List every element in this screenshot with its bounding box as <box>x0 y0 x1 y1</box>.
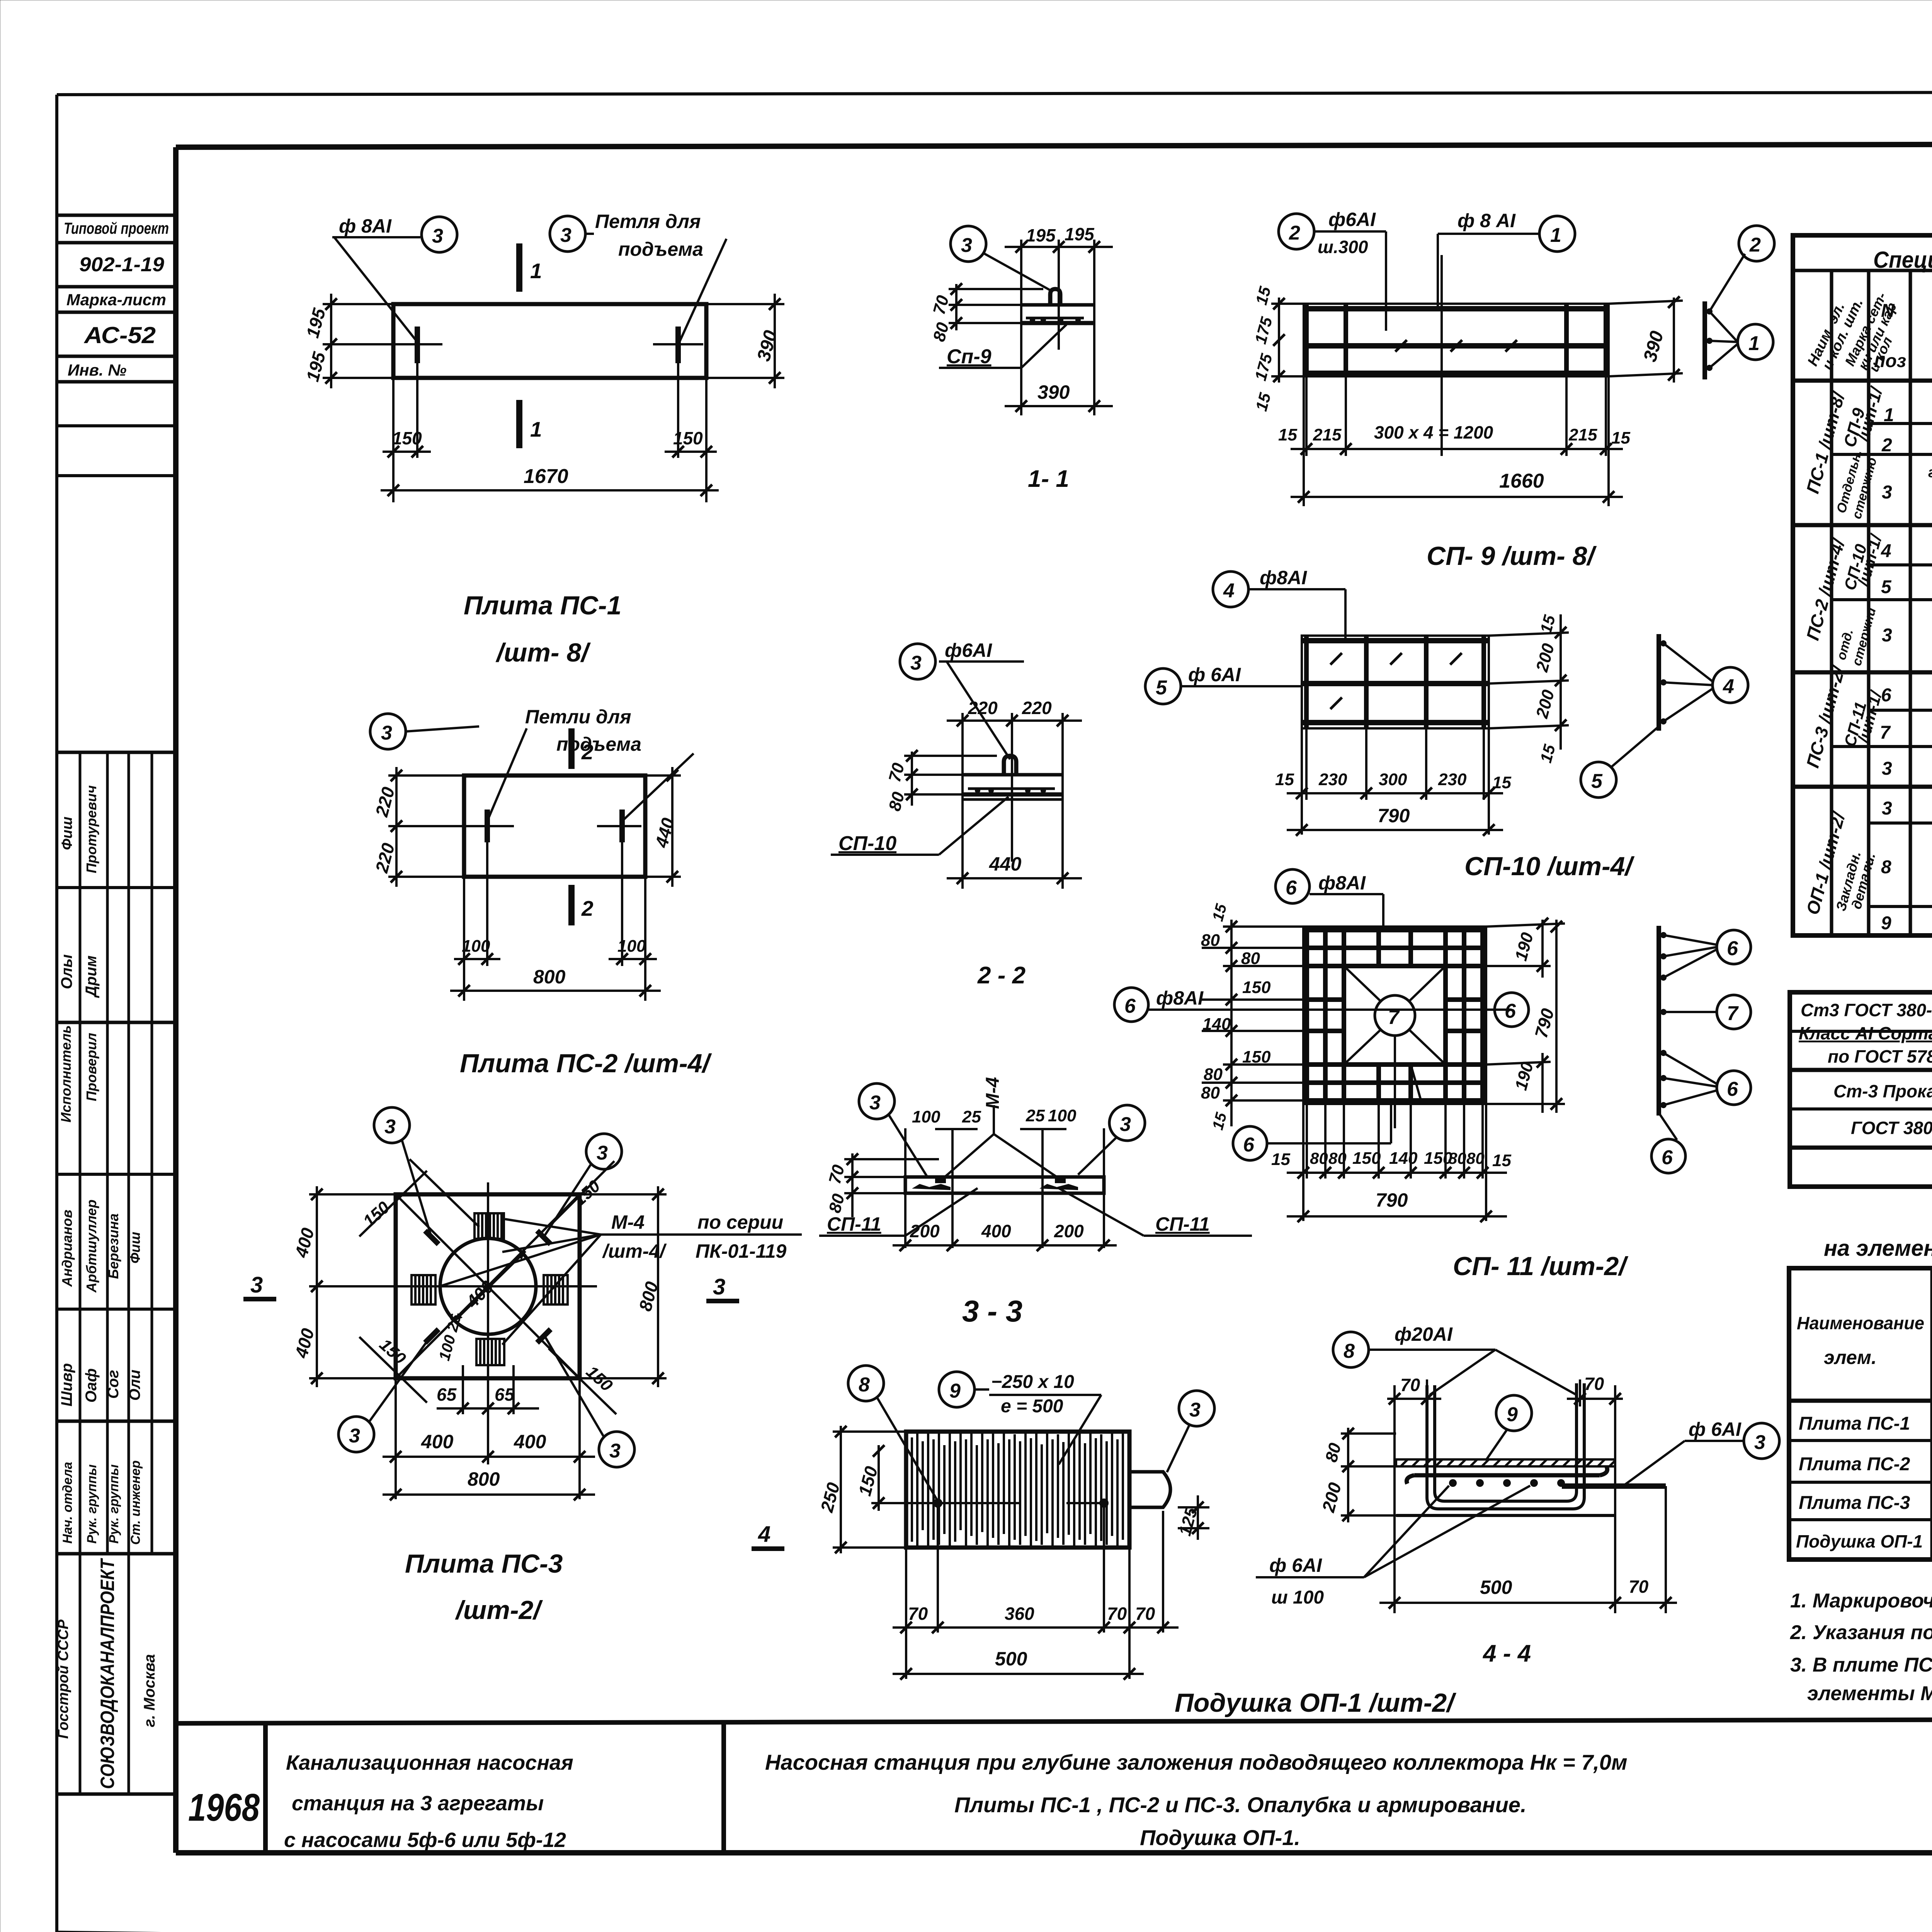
svg-text:3: 3 <box>869 1092 881 1114</box>
4-4 leader circle 9 <box>1486 1395 1532 1461</box>
section 4-4 drawing <box>1396 1383 1666 1515</box>
svg-text:15: 15 <box>1252 391 1274 413</box>
ПС-3 section marks 3-3 <box>243 1272 739 1301</box>
svg-text:25: 25 <box>1026 1106 1045 1125</box>
specification table row 8 with П sketch <box>1881 832 1932 889</box>
svg-text:150: 150 <box>1242 978 1271 997</box>
3-3 dims 70/80 left <box>825 1153 939 1217</box>
svg-text:ф 6АІ: ф 6АІ <box>1269 1554 1322 1576</box>
svg-text:150: 150 <box>1352 1149 1381 1168</box>
svg-text:80: 80 <box>1204 1065 1223 1084</box>
svg-text:6: 6 <box>1286 877 1297 899</box>
svg-text:80: 80 <box>825 1192 849 1215</box>
svg-text:Подушка ОП-1: Подушка ОП-1 <box>1796 1531 1923 1551</box>
ПС-3 М-4 annotation <box>439 1211 802 1345</box>
svg-text:Плита ПС-1: Плита ПС-1 <box>464 591 621 620</box>
СП-11 title <box>1453 1252 1628 1281</box>
svg-text:9: 9 <box>949 1380 961 1402</box>
svg-text:70: 70 <box>1107 1604 1127 1624</box>
svg-text:на элементы, показанные на: на элементы, показанные на данном листе <box>1824 1236 1932 1261</box>
СП-11 bottom dims <box>1271 1104 1511 1222</box>
svg-text:по ГОСТ 5781-61: по ГОСТ 5781-61 <box>1828 1046 1932 1066</box>
svg-text:Канализационная насосная: Канализационная насосная <box>286 1751 573 1774</box>
svg-text:8: 8 <box>1344 1340 1355 1362</box>
svg-text:1: 1 <box>530 417 542 441</box>
svg-text:9: 9 <box>1507 1403 1518 1426</box>
svg-text:ПК-01-119: ПК-01-119 <box>696 1240 787 1262</box>
svg-text:70: 70 <box>825 1163 849 1186</box>
svg-text:Плиты ПС-1 , ПС-2: Плиты ПС-1 , ПС-2 и ПС-3. Опалубка и арм… <box>954 1793 1527 1817</box>
svg-text:3: 3 <box>1189 1399 1201 1421</box>
specification table grid <box>1793 235 1932 935</box>
ПС-1 dimension 195/195 left <box>302 294 393 388</box>
svg-text:5: 5 <box>1881 577 1892 597</box>
svg-text:2: 2 <box>1289 222 1300 244</box>
specification table headers <box>1804 242 1932 381</box>
svg-text:−250 х 10: −250 х 10 <box>991 1372 1074 1392</box>
Плита ПС-3 plan <box>381 1182 597 1391</box>
svg-text:ф8АІ: ф8АІ <box>1318 872 1366 894</box>
svg-text:3: 3 <box>1754 1431 1765 1454</box>
ПС-3 leader circles 3 <box>338 1107 634 1467</box>
СП-11 left dims 15/80/80/150/140/150/80/80/15 <box>1201 902 1303 1132</box>
svg-text:/шт-4/: /шт-4/ <box>602 1240 667 1262</box>
svg-text:1660: 1660 <box>1499 470 1544 492</box>
svg-text:/шт- 8/: /шт- 8/ <box>495 638 591 667</box>
ПС-2 dims 100/100 bottom <box>454 842 657 1001</box>
svg-text:ф 6АІ: ф 6АІ <box>1689 1418 1742 1440</box>
svg-text:7: 7 <box>1727 1002 1739 1025</box>
1-1 dims 70/80 left <box>930 283 1043 344</box>
svg-text:790: 790 <box>1376 1189 1408 1211</box>
Подушка ОП-1 label <box>1175 1688 1456 1718</box>
Подушка leader circles 8 9 3 <box>848 1366 1214 1501</box>
svg-text:Дрим: Дрим <box>83 956 100 998</box>
svg-text:3: 3 <box>910 652 922 674</box>
svg-text:СП-11: СП-11 <box>1155 1213 1210 1235</box>
svg-text:1670: 1670 <box>524 465 568 488</box>
svg-text:1: 1 <box>1550 224 1561 247</box>
Подушка dims 70/360/70/70 bottom <box>893 1507 1179 1679</box>
svg-text:СП- 11 /шт-2/: СП- 11 /шт-2/ <box>1453 1252 1628 1281</box>
ПС-3 diameter 400 arrow <box>454 1251 526 1321</box>
svg-text:Ст. инженер: Ст. инженер <box>128 1460 143 1545</box>
ПС-3 dims 400/400 left <box>291 1186 396 1387</box>
svg-text:200: 200 <box>1054 1221 1084 1241</box>
2-2 leader circle 3 ф6АІ <box>900 639 1024 759</box>
svg-text:15: 15 <box>1536 742 1559 765</box>
svg-text:150: 150 <box>392 428 422 448</box>
Расход материалов table header texts <box>1797 1269 1932 1388</box>
ПС-2 dims 220/220 left <box>371 767 464 887</box>
svg-text:65: 65 <box>495 1384 515 1405</box>
СП-9 mesh <box>1304 304 1609 376</box>
svg-text:1968: 1968 <box>188 1786 260 1829</box>
svg-text:2: 2 <box>581 896 594 920</box>
svg-text:Подушка ОП-1.: Подушка ОП-1. <box>1140 1825 1300 1850</box>
svg-text:3: 3 <box>961 234 972 257</box>
svg-text:15: 15 <box>1209 902 1230 923</box>
svg-text:М-4: М-4 <box>983 1077 1003 1109</box>
svg-text:Подушка ОП-1 /шт-2/: Подушка ОП-1 /шт-2/ <box>1175 1688 1456 1718</box>
svg-text:2. Указания по эл. сварке: 2. Указания по эл. сварке арматурных сет… <box>1790 1621 1932 1644</box>
svg-text:Плита ПС-2: Плита ПС-2 <box>1799 1454 1910 1475</box>
svg-text:Плита ПС-1: Плита ПС-1 <box>1799 1413 1910 1434</box>
svg-text:5: 5 <box>1591 770 1603 793</box>
svg-text:70: 70 <box>1135 1604 1155 1624</box>
svg-text:элементы М-4 по серии: элементы М-4 по серии ПК-01-19; по 4 в к… <box>1807 1682 1932 1705</box>
svg-text:3: 3 <box>349 1425 360 1447</box>
svg-text:15: 15 <box>1278 425 1297 444</box>
svg-text:390: 390 <box>1037 381 1070 403</box>
svg-text:390: 390 <box>1640 329 1668 364</box>
svg-text:150: 150 <box>570 1177 604 1210</box>
2-2 dim 440 bottom <box>947 853 1082 884</box>
svg-text:3: 3 <box>597 1142 608 1164</box>
СП-11 mesh <box>1303 927 1486 1104</box>
svg-text:3: 3 <box>1882 482 1892 503</box>
title block texts <box>188 1731 1932 1895</box>
svg-text:4: 4 <box>1223 580 1235 602</box>
svg-text:Фиш: Фиш <box>127 1232 143 1264</box>
СП-9 leader circle 1 ф8АІ <box>1438 210 1575 307</box>
svg-text:ПС-3 /шт-2/: ПС-3 /шт-2/ <box>1802 663 1849 770</box>
2-2 label СП-10 leader <box>831 797 1009 855</box>
svg-text:400: 400 <box>291 1226 318 1260</box>
svg-text:360: 360 <box>1005 1604 1034 1624</box>
Примечания <box>1790 1561 1932 1705</box>
Выборка арматуры table grid <box>1790 992 1932 1187</box>
svg-text:N: N <box>1881 301 1895 321</box>
svg-text:2: 2 <box>1881 435 1892 456</box>
2-2 dims 70/80 left <box>885 750 997 813</box>
СП-11 side section bar with circles 6/7/6/6 <box>1651 926 1751 1173</box>
svg-text:25: 25 <box>962 1107 981 1126</box>
svg-text:Шивр: Шивр <box>58 1363 75 1406</box>
svg-text:8: 8 <box>859 1374 870 1396</box>
svg-text:150: 150 <box>854 1464 881 1498</box>
svg-text:ф6АІ: ф6АІ <box>945 639 992 661</box>
svg-text:3: 3 <box>381 722 392 744</box>
svg-text:4: 4 <box>1723 675 1734 698</box>
Плита ПС-3 label <box>405 1549 563 1625</box>
svg-text:5: 5 <box>1156 677 1167 699</box>
specification table group cells <box>1802 384 1886 917</box>
ПС-3 dims 400/400 bottom <box>383 1378 595 1499</box>
svg-text:175: 175 <box>1251 352 1276 383</box>
svg-text:70: 70 <box>885 761 908 784</box>
svg-text:300 х 4 = 1200: 300 х 4 = 1200 <box>1374 422 1493 442</box>
svg-text:4 - 4: 4 - 4 <box>1482 1640 1531 1667</box>
ПС-1 overall dimension 1670 <box>381 465 719 496</box>
ПС-2 dim 440 right <box>645 767 681 887</box>
svg-text:элем.: элем. <box>1824 1347 1877 1368</box>
svg-text:6: 6 <box>1243 1134 1255 1156</box>
svg-text:400: 400 <box>291 1326 318 1361</box>
svg-text:6: 6 <box>1727 937 1738 960</box>
1-1 title <box>1028 466 1069 492</box>
section mark 1 above/below ПС-1 <box>519 243 542 448</box>
svg-text:790: 790 <box>1531 1006 1558 1040</box>
svg-text:1. Маркировочные планы пл: 1. Маркировочные планы плит см. листы АС… <box>1790 1590 1932 1612</box>
СП-10 leader circle 5 ф6АІ <box>1145 664 1302 704</box>
svg-text:СП-10: СП-10 <box>838 832 896 855</box>
svg-text:3. В плите ПС-3 дол: 3. В плите ПС-3 должны быть установлены … <box>1790 1654 1932 1676</box>
svg-text:Фиш: Фиш <box>59 816 75 850</box>
svg-text:ф20АІ: ф20АІ <box>1395 1323 1453 1345</box>
svg-text:15: 15 <box>1492 773 1511 792</box>
svg-text:80: 80 <box>1241 949 1260 968</box>
Подушка dim 125 right <box>1175 1495 1209 1540</box>
section mark 2 above/below ПС-2 <box>571 728 594 925</box>
svg-text:Ст-3 Прокат: Ст-3 Прокат <box>1833 1081 1932 1101</box>
svg-text:200: 200 <box>1532 688 1558 721</box>
svg-text:ф6АІ: ф6АІ <box>1328 209 1376 230</box>
svg-text:190: 190 <box>1512 930 1537 963</box>
4-4 leader circle 3 ф6АІ <box>1623 1418 1779 1486</box>
svg-text:195: 195 <box>1026 225 1056 245</box>
svg-text:3: 3 <box>560 224 571 247</box>
svg-text:поз: поз <box>1874 351 1906 371</box>
svg-text:15: 15 <box>1611 429 1630 447</box>
Подушка overall dim 500 <box>893 1648 1144 1680</box>
svg-text:ГОСТ 380 - 60: ГОСТ 380 - 60 <box>1851 1118 1932 1138</box>
svg-text:500: 500 <box>995 1648 1027 1670</box>
svg-text:220: 220 <box>371 785 398 819</box>
svg-text:9: 9 <box>1881 913 1891 934</box>
svg-text:220: 220 <box>1022 698 1052 718</box>
svg-text:с насосами 5ф-6 или 5ф-12: с насосами 5ф-6 или 5ф-12 <box>284 1828 566 1852</box>
svg-text:3: 3 <box>1120 1113 1131 1136</box>
svg-text:250: 250 <box>816 1480 844 1515</box>
1-1 label Сп-9 <box>939 325 1066 368</box>
ПС-3 dim 800 right <box>580 1186 667 1387</box>
svg-text:6: 6 <box>1505 1000 1516 1022</box>
svg-text:3: 3 <box>250 1272 263 1298</box>
svg-text:Госстрой СССР: Госстрой СССР <box>55 1619 71 1739</box>
svg-text:СП- 9 /шт- 8/: СП- 9 /шт- 8/ <box>1427 541 1597 571</box>
svg-text:70: 70 <box>1400 1375 1420 1395</box>
svg-text:Насосная станция при: Насосная станция при глубине заложения п… <box>765 1750 1628 1774</box>
СП-9 overall dim 1660 <box>1291 470 1623 503</box>
4-4 ф6АІ ш100 label left <box>1256 1486 1530 1608</box>
svg-text:/шт-2/: /шт-2/ <box>455 1595 543 1625</box>
svg-text:400: 400 <box>981 1221 1011 1241</box>
svg-text:ф 8 АІ: ф 8 АІ <box>1458 210 1516 231</box>
specification table row 3 hook sketch <box>1882 464 1932 524</box>
СП-11 leader circles 6 <box>1114 869 1529 1160</box>
svg-text:7: 7 <box>1880 723 1891 743</box>
svg-text:15: 15 <box>1271 1150 1290 1169</box>
svg-text:станция на 3 агрегаты: станция на 3 агрегаты <box>292 1792 544 1815</box>
3-3 leader circles 3 <box>859 1083 1145 1177</box>
svg-text:100: 100 <box>912 1107 940 1126</box>
svg-text:3: 3 <box>713 1274 725 1299</box>
svg-text:440: 440 <box>989 853 1022 875</box>
СП-10 side section bar with circles 4 and 5 <box>1581 634 1748 798</box>
svg-text:440: 440 <box>651 816 678 850</box>
svg-text:3: 3 <box>432 225 443 247</box>
svg-text:Исполнитель: Исполнитель <box>58 1025 74 1122</box>
svg-text:по серии: по серии <box>697 1211 783 1233</box>
СП-10 leader circle 4 ф8АІ <box>1213 567 1345 638</box>
svg-text:3: 3 <box>1882 625 1892 646</box>
ПС-2 overall dim 800 <box>450 966 661 997</box>
svg-text:М-4: М-4 <box>611 1211 645 1233</box>
svg-text:15: 15 <box>1275 770 1294 789</box>
svg-text:3: 3 <box>609 1440 621 1462</box>
3-3 title <box>962 1294 1022 1328</box>
ПС-3 weld marks <box>425 1231 551 1343</box>
svg-text:80: 80 <box>1201 931 1220 950</box>
svg-text:подъема: подъема <box>556 733 641 755</box>
ПС-1 dimension 150 bottom right <box>665 363 717 502</box>
bottom title block <box>176 1718 1932 1853</box>
svg-text:195: 195 <box>302 306 329 340</box>
СП-9 side section bar with circles 2 and 1 <box>1705 226 1774 379</box>
СП-9 dims 15/175/175/15 left <box>1251 284 1304 413</box>
svg-text:150: 150 <box>1242 1048 1271 1066</box>
svg-text:2: 2 <box>1749 234 1761 256</box>
svg-text:195: 195 <box>1065 224 1095 244</box>
specification table rows 4-5 <box>1881 526 1932 601</box>
svg-text:3: 3 <box>1882 798 1892 819</box>
Подушка section mark 4 <box>752 1522 784 1549</box>
svg-text:1: 1 <box>1748 332 1760 355</box>
svg-text:Оаф: Оаф <box>83 1368 100 1403</box>
4-4 extension lines and dims <box>1318 1374 1677 1613</box>
svg-text:200: 200 <box>1318 1480 1345 1515</box>
svg-text:Класс АІ Сортамент: Класс АІ Сортамент <box>1799 1023 1932 1043</box>
svg-text:400: 400 <box>421 1431 454 1452</box>
svg-text:140: 140 <box>1202 1015 1231 1034</box>
left stamp column lines <box>57 215 176 1794</box>
ПС-1 dimension 150 bottom left <box>383 363 431 502</box>
svg-text:80: 80 <box>1310 1149 1328 1167</box>
svg-text:Плита ПС-3: Плита ПС-3 <box>1799 1493 1910 1513</box>
svg-text:ш 100: ш 100 <box>1271 1587 1324 1608</box>
svg-text:220: 220 <box>371 841 398 875</box>
svg-text:Арбтшуллер: Арбтшуллер <box>83 1199 99 1293</box>
specification table row 3b <box>1882 621 1932 668</box>
svg-text:300: 300 <box>1379 770 1407 789</box>
svg-text:3: 3 <box>384 1116 396 1138</box>
svg-text:70: 70 <box>1584 1374 1604 1394</box>
svg-text:8: 8 <box>1881 857 1891 878</box>
svg-text:подъема: подъема <box>618 238 703 260</box>
svg-text:Наименование: Наименование <box>1797 1313 1924 1333</box>
Плита ПС-1 plan <box>386 304 706 378</box>
svg-text:150: 150 <box>582 1362 616 1395</box>
svg-text:1: 1 <box>530 259 542 283</box>
Плита ПС-1 label <box>464 591 621 667</box>
svg-text:Олы: Олы <box>58 954 75 989</box>
svg-text:80: 80 <box>1448 1149 1466 1167</box>
svg-text:Петля для: Петля для <box>595 211 701 232</box>
svg-text:230: 230 <box>1438 770 1467 789</box>
svg-text:Марка-лист: Марка-лист <box>66 291 166 309</box>
svg-text:6: 6 <box>1662 1146 1673 1169</box>
СП-11 right dims 190/790/190 <box>1486 918 1565 1113</box>
svg-text:6: 6 <box>1124 995 1136 1017</box>
СП-9 leader circle 2 ф6АІ <box>1279 209 1386 331</box>
СП-10 dims right 15/200/200/15 <box>1489 613 1569 765</box>
svg-text:ф 8АІ: ф 8АІ <box>339 215 392 237</box>
svg-text:ф 6АІ: ф 6АІ <box>1188 664 1241 685</box>
svg-text:6: 6 <box>1727 1078 1738 1100</box>
specification table row 1 <box>1884 389 1932 425</box>
1-1 dim 390 bottom <box>1005 381 1113 412</box>
specification table rows 3c 3d <box>1882 755 1932 819</box>
svg-text:80: 80 <box>1466 1149 1485 1167</box>
svg-text:15: 15 <box>1209 1111 1230 1132</box>
svg-text:80: 80 <box>1201 1083 1220 1102</box>
СП-10 overall dim 790 <box>1287 728 1503 836</box>
svg-text:Андрианов: Андрианов <box>59 1210 75 1287</box>
svg-text:Сп-9: Сп-9 <box>947 345 992 368</box>
svg-text:ш.300: ш.300 <box>1318 237 1368 257</box>
svg-text:Протуревич: Протуревич <box>83 785 99 873</box>
svg-text:100: 100 <box>1048 1106 1077 1125</box>
ПС-3 overall dim 800 bottom <box>383 1468 595 1500</box>
svg-text:Проверил: Проверил <box>83 1033 99 1101</box>
svg-text:800: 800 <box>533 966 566 988</box>
leader circle 3 with ф8АІ for ПС-1 <box>332 215 457 342</box>
svg-text:150: 150 <box>376 1335 410 1368</box>
section 2-2 drawing <box>947 698 1082 889</box>
4-4 leader circle 8 ф20АІ <box>1333 1323 1577 1395</box>
specification table rows 6-7 <box>1880 672 1932 749</box>
Плита ПС-2 label <box>460 1049 712 1078</box>
leader circle 3 with Петля для подъема for ПС-1 <box>550 211 726 343</box>
ПС-3 dims 65/65 and 100 26 <box>436 1312 539 1414</box>
svg-text:1- 1: 1- 1 <box>1028 466 1069 492</box>
svg-text:70: 70 <box>930 293 953 316</box>
svg-text:65: 65 <box>437 1384 457 1405</box>
4-4 title <box>1482 1640 1531 1667</box>
svg-text:230: 230 <box>1318 770 1347 789</box>
svg-text:АС-52: АС-52 <box>83 322 156 348</box>
svg-text:СОЮЗВОДОКАНАЛПРОЕКТ: СОЮЗВОДОКАНАЛПРОЕКТ <box>97 1558 118 1789</box>
svg-text:СП-10 /шт-4/: СП-10 /шт-4/ <box>1464 852 1634 881</box>
ПС-1 dimension 390 right <box>706 294 784 388</box>
svg-text:4: 4 <box>1881 541 1891 561</box>
3-3 dims 200/400/200 <box>893 1221 1117 1251</box>
svg-text:150: 150 <box>673 428 703 448</box>
svg-text:е = 500: е = 500 <box>1001 1396 1063 1417</box>
Расход материалов data rows <box>1796 1413 1932 1554</box>
svg-text:500: 500 <box>1480 1577 1512 1598</box>
svg-text:100 26: 100 26 <box>436 1312 464 1362</box>
2-2 title <box>977 962 1026 989</box>
СП-9 title <box>1427 541 1597 571</box>
svg-text:140: 140 <box>1389 1149 1418 1168</box>
svg-text:Березина: Березина <box>105 1213 121 1279</box>
svg-text:ПС-2 /шт-4/: ПС-2 /шт-4/ <box>1802 536 1849 643</box>
stamp column texts <box>55 219 169 1789</box>
svg-text:150: 150 <box>359 1198 393 1231</box>
svg-text:200: 200 <box>1532 641 1558 674</box>
svg-text:390: 390 <box>753 328 781 363</box>
svg-text:Плита ПС-2 /шт-4/: Плита ПС-2 /шт-4/ <box>460 1049 712 1078</box>
svg-text:Рук. группы: Рук. группы <box>107 1464 121 1544</box>
svg-text:400: 400 <box>514 1431 546 1452</box>
svg-text:2 - 2: 2 - 2 <box>977 962 1026 989</box>
specification table row 9 <box>1881 909 1932 934</box>
svg-text:800: 800 <box>468 1468 500 1490</box>
svg-text:215: 215 <box>1313 425 1342 444</box>
svg-text:Инв. №: Инв. № <box>68 361 126 379</box>
